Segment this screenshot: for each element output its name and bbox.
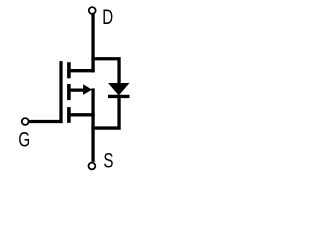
terminal S circle [89,163,96,170]
wire: body stub with arrow to source vertical [69,88,85,91]
wire: top branch from drain to diode cathode side [91,59,119,84]
channel segment: bottom (source) [67,107,71,123]
svg-text:S: S [103,148,113,172]
terminal D circle [89,7,96,14]
wire: source vertical from body stub down to terminal S [91,88,94,161]
arrowhead on body stub pointing right [83,84,92,95]
svg-text:G: G [18,127,30,151]
gate bar (vertical gate line) [59,61,62,123]
wire: drain stub (channel top segment to drain vertical) [69,69,95,72]
diode cathode bar [108,95,130,98]
channel segment: top (drain) [67,62,71,78]
channel segment: middle (body) [67,84,71,100]
wire: drain vertical from terminal D down to drain stub [91,14,94,72]
wire: gate horizontal from terminal G to gate bar [29,120,63,123]
wire: source stub (channel bottom segment to source vertical) [69,113,95,116]
wire: bottom branch from diode anode side to source vertical [91,97,119,128]
svg-text:D: D [102,4,113,28]
terminal G circle [22,118,29,125]
diode D1 body diode: anode triangle pointing down [108,83,130,96]
